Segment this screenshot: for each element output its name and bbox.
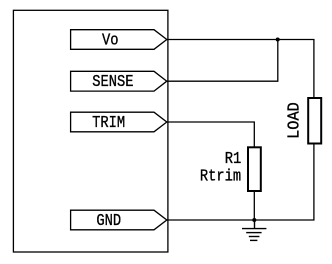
node junction dot (R1/GND) <box>252 218 256 222</box>
wire Vo output to top-right corner then down to LOAD <box>167 40 314 99</box>
svg-text:SENSE: SENSE <box>92 72 133 92</box>
pin TRIM <box>71 112 167 132</box>
pin GND <box>71 210 167 230</box>
module body (power supply outline) <box>13 10 168 252</box>
wire R1 bottom to ground net <box>253 191 255 220</box>
resistor LOAD body <box>308 98 321 144</box>
svg-text:Vo: Vo <box>102 30 119 50</box>
resistor R1 body <box>248 147 261 191</box>
pin SENSE <box>71 71 167 91</box>
wire GND pin to bottom-right corner and up to LOAD <box>167 144 314 221</box>
pin Vo <box>71 30 167 50</box>
wire SENSE to Vo net <box>167 40 278 81</box>
node junction dot (Vo/SENSE) <box>276 38 280 42</box>
svg-text:LOAD: LOAD <box>285 102 304 139</box>
ground symbol <box>242 220 266 240</box>
svg-text:GND: GND <box>96 211 121 231</box>
svg-text:Rtrim: Rtrim <box>200 166 241 186</box>
wire TRIM to R1 top <box>167 122 255 147</box>
svg-text:TRIM: TRIM <box>92 113 125 133</box>
